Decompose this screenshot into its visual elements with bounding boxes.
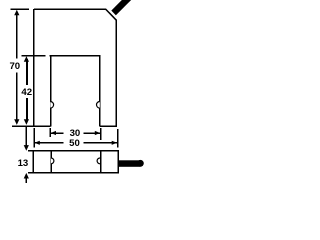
extension tick top (70 dim) [11,8,30,10]
extension bar 30 left [49,128,51,137]
arrow 50 left [34,141,39,145]
arrow 13 down [24,145,29,151]
side view lens bump right [97,158,100,164]
dimension 13 lower stem [25,178,27,184]
fork right arm bottom edge [100,125,117,127]
arrow 30 left [51,131,56,135]
fork left arm bottom edge [34,125,51,127]
dimension line 30 [50,132,63,134]
fork right edge [115,20,117,127]
white gap between chamfer and cable [107,8,118,19]
arrow 13 up [24,173,29,179]
fork top edge [34,8,106,10]
extension bar 50 right [117,129,119,148]
extension tick 13 bottom [28,172,34,174]
fork slot left edge [50,56,52,127]
dimension line 70 [16,13,18,59]
extension bar 50 left [33,128,35,148]
arrow 70 down [14,119,19,125]
extension line slot top (42 dim) [22,55,46,57]
arrow 50 right [112,141,117,145]
lens bump left arm (front view) [50,102,53,109]
fork body fill [34,9,116,126]
side view inner line left [50,151,52,173]
dimension line 42 [26,59,28,85]
arrow 42 down [24,119,29,125]
side view inner line right [100,151,102,173]
fork chamfer [106,9,117,20]
side view body [33,151,118,173]
arrow 42 up [24,56,29,62]
svg-text:13: 13 [18,158,29,169]
cable (top, exits diagonally) [111,0,131,16]
fork slot top edge [50,55,101,57]
fork slot right edge [99,56,101,127]
side view lens bump left [51,158,54,164]
svg-text:70: 70 [9,61,20,72]
svg-text:42: 42 [21,87,32,98]
arrow 30 right [95,131,100,135]
dimension line 50 [34,142,63,144]
extension line bottom (70/42 dims) [12,125,34,127]
extension tick 13 top [28,150,34,152]
fork left edge [33,9,35,126]
lens bump right arm (front view) [97,102,100,109]
extension bar 30 right [100,128,102,140]
cable (side view, exits right) [118,160,141,167]
dimension 13 upper stem [25,126,27,147]
arrow 70 up [14,10,19,16]
svg-text:50: 50 [69,138,80,149]
